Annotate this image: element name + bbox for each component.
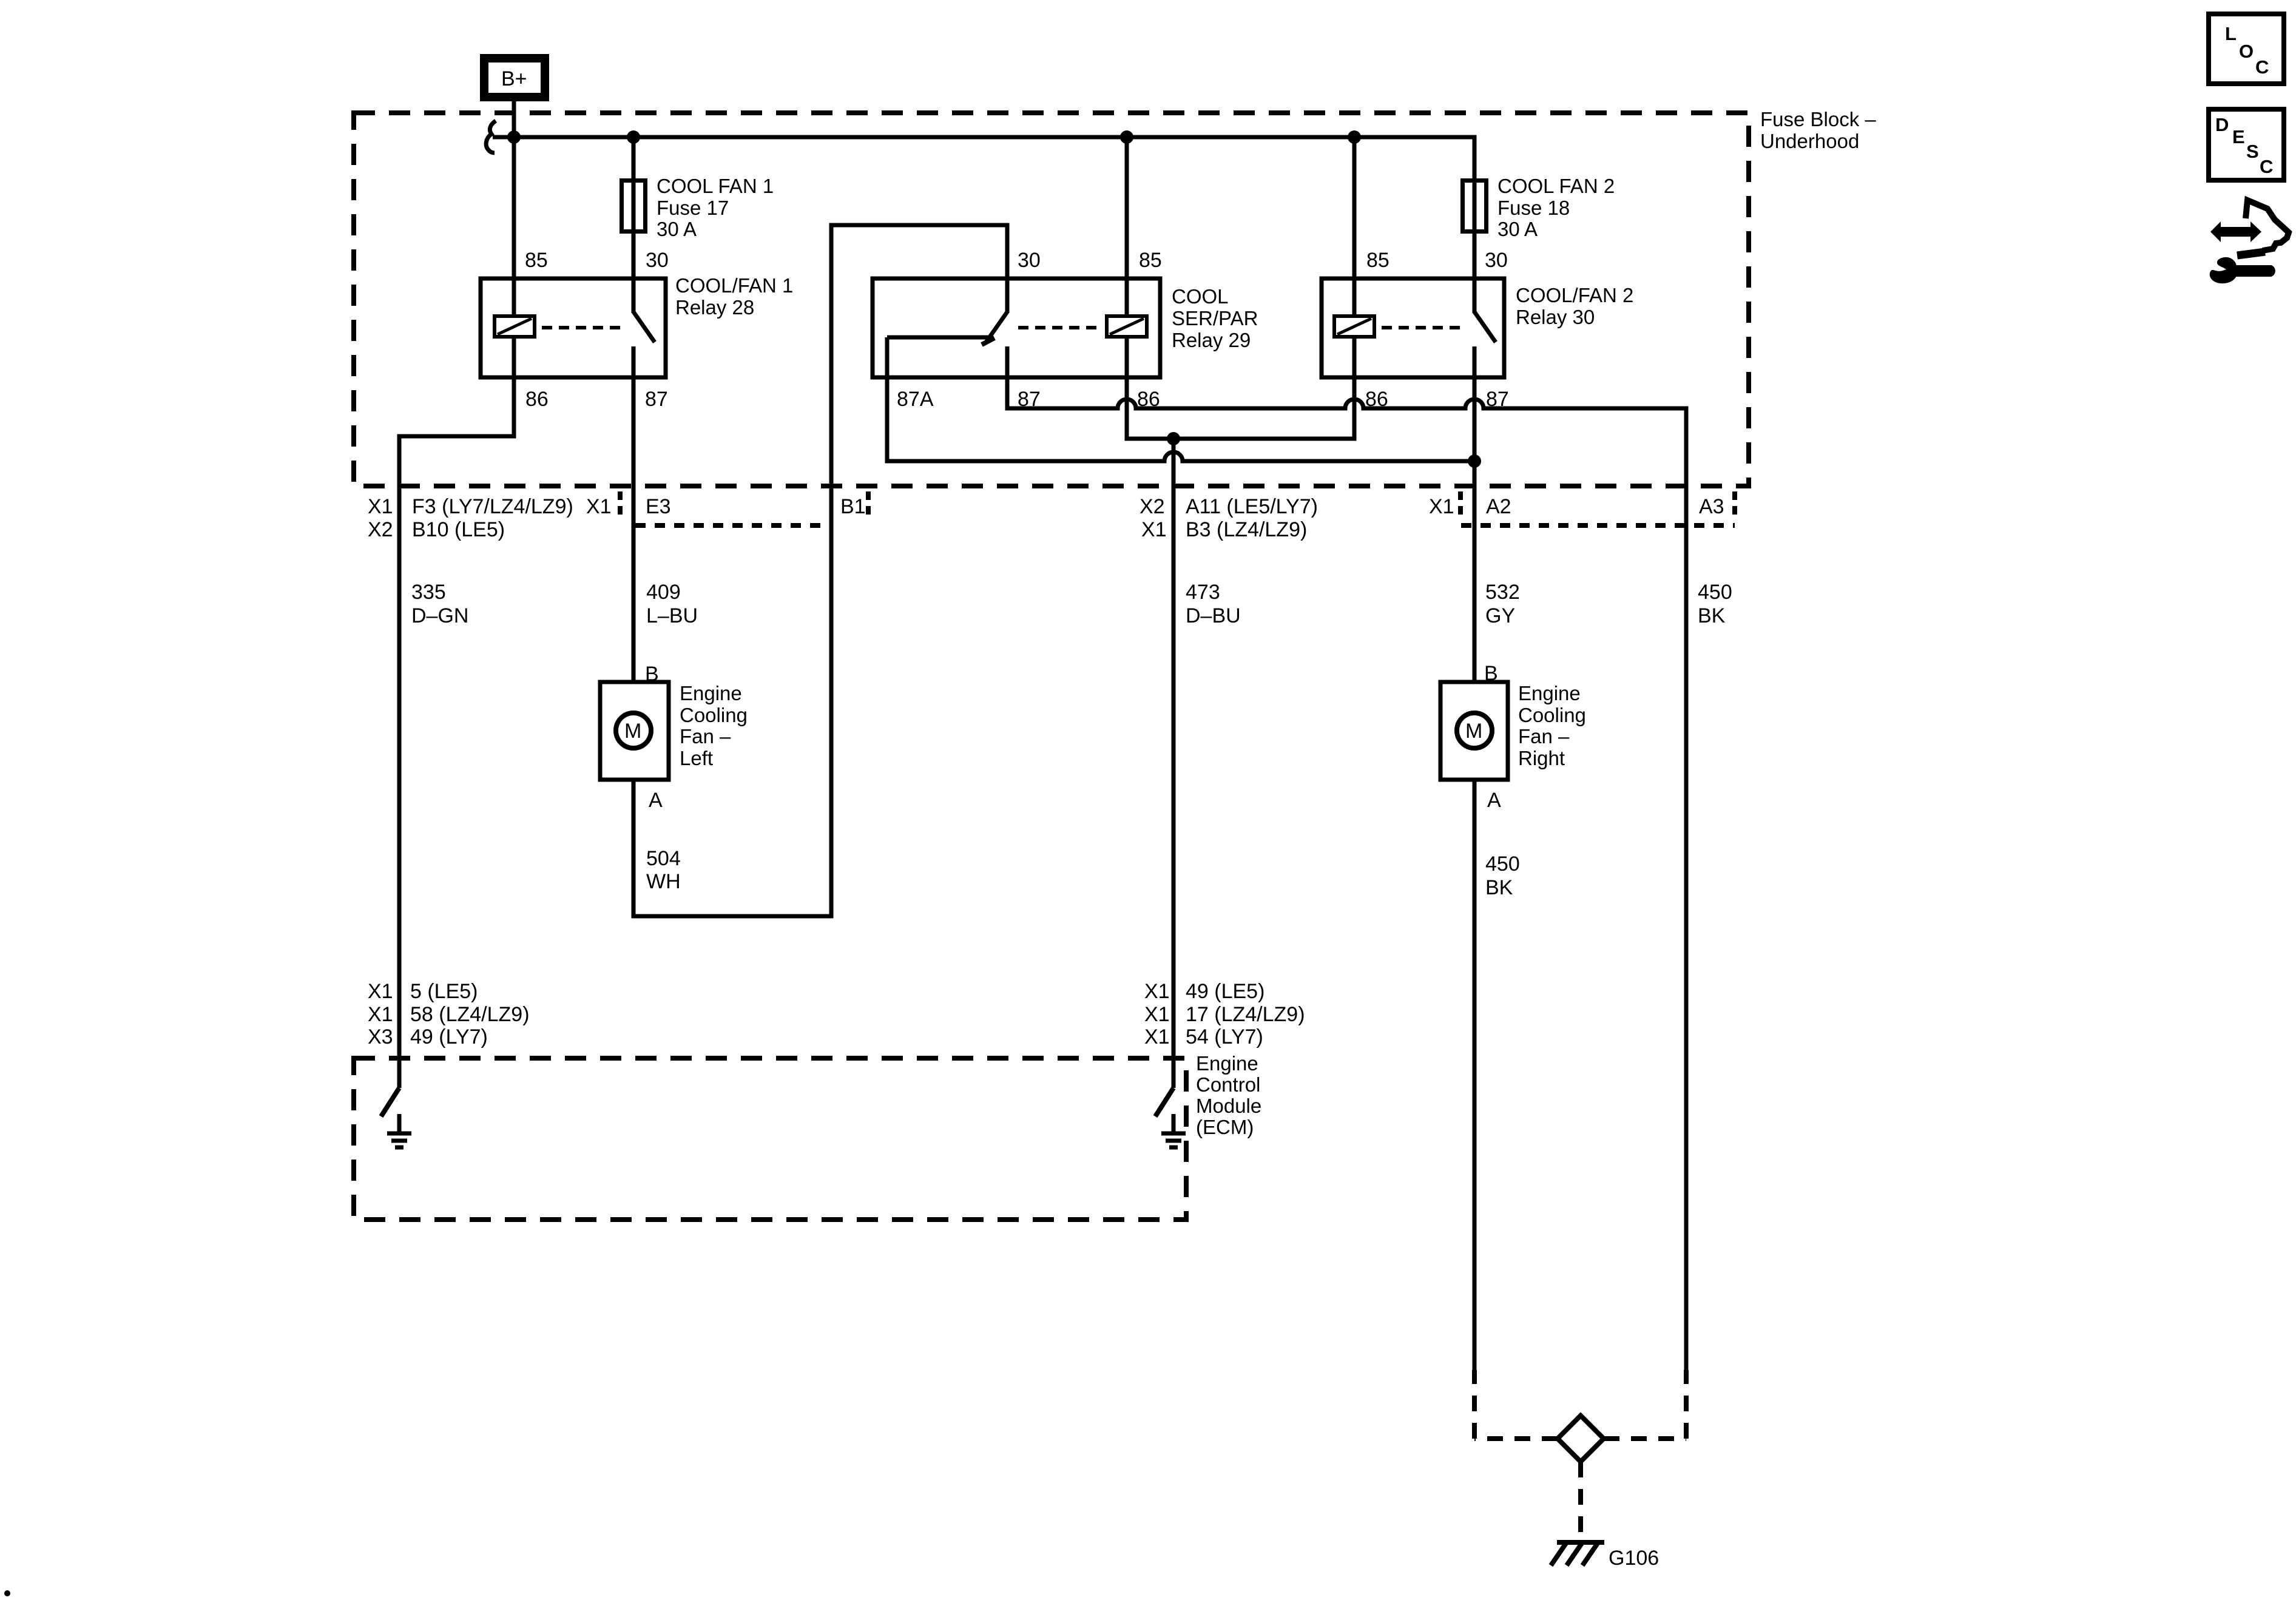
svg-text:Underhood: Underhood bbox=[1760, 130, 1859, 152]
wire label 473 D-BU bbox=[1186, 581, 1241, 627]
svg-text:X1: X1 bbox=[1144, 1025, 1170, 1048]
wire relay 29 pin 86 to relay 30 pin 86 bbox=[1127, 337, 1354, 439]
svg-text:M: M bbox=[1465, 720, 1482, 743]
dashed wire 450 BK to splice diamond right bbox=[1684, 1370, 1689, 1439]
ground symbol ECM right bbox=[1161, 1114, 1186, 1147]
dashed wire 532/450 to splice diamond left bbox=[1472, 1370, 1477, 1439]
svg-text:Fuse Block –: Fuse Block – bbox=[1760, 108, 1876, 130]
svg-text:B1: B1 bbox=[840, 495, 866, 518]
fuse 18 value label bbox=[1497, 175, 1615, 240]
svg-text:Fuse 18: Fuse 18 bbox=[1497, 197, 1570, 219]
svg-text:Engine: Engine bbox=[1518, 682, 1581, 704]
svg-text:X2: X2 bbox=[1140, 495, 1165, 518]
svg-text:X1: X1 bbox=[368, 980, 393, 1003]
relay 29 switch contact tick bbox=[982, 338, 994, 345]
relay 30 coil bbox=[1334, 316, 1374, 337]
wire 473 D-BU to ECM A11 bbox=[1172, 439, 1176, 1088]
svg-text:450: 450 bbox=[1698, 581, 1732, 604]
svg-text:WH: WH bbox=[646, 870, 681, 893]
relay 28 label bbox=[675, 274, 793, 319]
svg-text:X1: X1 bbox=[1144, 1003, 1170, 1026]
svg-text:B: B bbox=[645, 663, 659, 686]
ECM pin labels right bbox=[1144, 980, 1305, 1048]
wire bus to fuse 18 and relay 30 pin 30 bbox=[1473, 137, 1477, 313]
svg-text:450: 450 bbox=[1485, 852, 1520, 876]
svg-text:86: 86 bbox=[525, 388, 549, 411]
svg-text:D: D bbox=[2215, 114, 2229, 135]
svg-text:409: 409 bbox=[646, 581, 681, 604]
relay 29 pin 87 stub bbox=[1005, 346, 1010, 377]
svg-text:X1: X1 bbox=[586, 495, 612, 518]
svg-text:X1: X1 bbox=[1141, 518, 1167, 541]
svg-text:Relay 28: Relay 28 bbox=[675, 296, 754, 319]
svg-text:X1: X1 bbox=[368, 495, 393, 518]
svg-text:85: 85 bbox=[1139, 249, 1162, 272]
node junction relay 30 pin 85 tap bbox=[1348, 130, 1361, 144]
wire bus to fuse 17 and relay 28 pin 30 bbox=[632, 137, 636, 313]
svg-text:504: 504 bbox=[646, 847, 681, 870]
relay 30 label bbox=[1516, 284, 1633, 328]
wire label 409 L-BU bbox=[646, 581, 698, 627]
svg-text:30: 30 bbox=[1018, 249, 1041, 272]
fuse F18 COOL FAN 2 bbox=[1463, 178, 1487, 234]
svg-text:COOL FAN 1: COOL FAN 1 bbox=[657, 175, 774, 197]
svg-text:85: 85 bbox=[525, 249, 548, 272]
svg-text:Relay 29: Relay 29 bbox=[1172, 329, 1251, 351]
right fan label bbox=[1518, 682, 1586, 769]
relay K30 COOL/FAN 2 Relay 30 bbox=[1322, 279, 1504, 377]
left fan label bbox=[680, 682, 748, 769]
connector X1 pin F3 / X2 pin B10 labels bbox=[368, 495, 573, 541]
fuse F17 COOL FAN 1 bbox=[622, 178, 646, 234]
relay 28 switch blade bbox=[633, 312, 655, 342]
svg-text:O: O bbox=[2239, 41, 2254, 62]
svg-text:5 (LE5): 5 (LE5) bbox=[410, 980, 478, 1003]
wire relay 29 pin 85 from bus bbox=[1125, 137, 1129, 316]
svg-text:Relay 30: Relay 30 bbox=[1516, 306, 1595, 328]
wire left fan pin A 504 WH riser through B1 to relay 29 pin 30 bbox=[633, 225, 1007, 916]
wire label 450 BK lower bbox=[1485, 852, 1520, 899]
svg-text:GY: GY bbox=[1485, 604, 1515, 627]
relay 29 coil-switch dashed link bbox=[1018, 326, 1099, 329]
relay 29 switch blade bbox=[986, 312, 1007, 342]
svg-text:L–BU: L–BU bbox=[646, 604, 698, 627]
svg-text:Engine: Engine bbox=[1196, 1052, 1258, 1075]
relay K28 COOL/FAN 1 Relay 28 bbox=[481, 279, 666, 377]
svg-text:X1: X1 bbox=[1429, 495, 1454, 518]
node junction 86 bus to ECM bbox=[1167, 432, 1180, 445]
node junction B+ bus bbox=[507, 130, 521, 144]
wire battery bus bbox=[493, 137, 1474, 178]
svg-text:49 (LE5): 49 (LE5) bbox=[1186, 980, 1264, 1003]
relay 29 pin 87A inner wire bbox=[887, 336, 990, 340]
splice diamond bbox=[1558, 1416, 1604, 1462]
svg-text:87: 87 bbox=[645, 388, 668, 411]
fuse block label bbox=[1760, 108, 1876, 152]
svg-text:C: C bbox=[2260, 156, 2273, 177]
fuse block - underhood boundary bbox=[354, 113, 1749, 486]
svg-text:C: C bbox=[2255, 56, 2269, 78]
svg-text:30 A: 30 A bbox=[1497, 218, 1538, 240]
svg-text:A11 (LE5/LY7): A11 (LE5/LY7) bbox=[1186, 495, 1318, 518]
svg-text:B3 (LZ4/LZ9): B3 (LZ4/LZ9) bbox=[1186, 518, 1307, 541]
ECM label bbox=[1196, 1052, 1261, 1138]
svg-text:30: 30 bbox=[1485, 249, 1508, 272]
svg-text:473: 473 bbox=[1186, 581, 1220, 604]
svg-text:S: S bbox=[2246, 141, 2259, 162]
svg-text:X1: X1 bbox=[368, 1003, 393, 1026]
svg-text:Fan –: Fan – bbox=[1518, 725, 1570, 748]
svg-text:COOL/FAN 1: COOL/FAN 1 bbox=[675, 274, 793, 297]
connector X2 pin A11 / X1 pin B3 labels bbox=[1140, 495, 1318, 541]
motor M1 Engine Cooling Fan Left bbox=[600, 682, 669, 780]
relay 30 coil-switch dashed link bbox=[1382, 326, 1466, 329]
svg-text:Cooling: Cooling bbox=[1518, 704, 1586, 726]
relay 28 coil-switch dashed link bbox=[542, 326, 626, 329]
power symbol B+ bbox=[484, 58, 545, 97]
connector X1 pins A2 A3 labels and notch bbox=[1429, 491, 1735, 525]
svg-text:A3: A3 bbox=[1699, 495, 1724, 518]
icon adjust hand outline bbox=[2237, 200, 2289, 255]
relay 29 coil bbox=[1107, 316, 1147, 337]
icon DESC box bbox=[2209, 109, 2284, 180]
wire relay 28 pin 87 to connector E3 and fan B bbox=[632, 377, 636, 682]
svg-text:A: A bbox=[1487, 789, 1501, 812]
wire relay 30 pin 85 from bus bbox=[1352, 137, 1357, 316]
svg-text:E: E bbox=[2232, 126, 2245, 147]
icon wrench bbox=[2210, 257, 2275, 283]
svg-text:A: A bbox=[649, 789, 663, 812]
svg-text:(ECM): (ECM) bbox=[1196, 1116, 1254, 1138]
svg-text:85: 85 bbox=[1366, 249, 1389, 272]
node junction relay 29 pin 85 tap bbox=[1120, 130, 1133, 144]
svg-text:17 (LZ4/LZ9): 17 (LZ4/LZ9) bbox=[1186, 1003, 1305, 1026]
svg-text:X1: X1 bbox=[1144, 980, 1170, 1003]
relay 29 label bbox=[1172, 285, 1258, 351]
svg-text:Control: Control bbox=[1196, 1073, 1260, 1096]
svg-text:Right: Right bbox=[1518, 747, 1565, 769]
wire label 532 GY bbox=[1485, 581, 1520, 627]
wire B+ feed hook bbox=[486, 121, 496, 153]
ground G106 bbox=[1551, 1542, 1604, 1565]
svg-text:X2: X2 bbox=[368, 518, 393, 541]
relay 28 pin 87 stub bbox=[632, 346, 636, 377]
svg-text:BK: BK bbox=[1485, 876, 1513, 899]
relay 30 switch blade bbox=[1474, 312, 1496, 342]
svg-text:Left: Left bbox=[680, 747, 713, 769]
relay 30 pin 87 stub bbox=[1473, 346, 1477, 377]
svg-text:30 A: 30 A bbox=[657, 218, 697, 240]
svg-text:30: 30 bbox=[646, 249, 669, 272]
svg-text:M: M bbox=[624, 720, 641, 743]
wire label 335 D-GN bbox=[411, 581, 468, 627]
page dot bottom left bbox=[4, 1590, 10, 1596]
svg-text:B: B bbox=[1484, 662, 1498, 685]
relay 28 coil bbox=[495, 316, 535, 337]
wire relay 29 pin 87 to connector A3 (450 BK) with hops bbox=[1007, 377, 1686, 1370]
svg-text:L: L bbox=[2225, 23, 2237, 44]
wire right fan pin A 450 BK down bbox=[1473, 780, 1477, 1370]
svg-text:D–BU: D–BU bbox=[1186, 604, 1241, 627]
wire label 450 BK right bbox=[1698, 581, 1732, 627]
ECM pin labels left bbox=[368, 980, 530, 1048]
svg-text:G106: G106 bbox=[1609, 1547, 1659, 1570]
svg-text:A2: A2 bbox=[1486, 495, 1511, 518]
svg-text:COOL: COOL bbox=[1172, 285, 1229, 308]
relay K29 COOL SER/PAR Relay 29 bbox=[873, 279, 1160, 377]
svg-text:58 (LZ4/LZ9): 58 (LZ4/LZ9) bbox=[410, 1003, 530, 1026]
svg-text:E3: E3 bbox=[646, 495, 671, 518]
svg-text:X3: X3 bbox=[368, 1025, 393, 1048]
svg-text:Fan –: Fan – bbox=[680, 725, 731, 748]
svg-text:COOL FAN 2: COOL FAN 2 bbox=[1497, 175, 1615, 197]
svg-text:F3 (LY7/LZ4/LZ9): F3 (LY7/LZ4/LZ9) bbox=[412, 495, 573, 518]
node junction 87A to A2 wire bbox=[1468, 454, 1481, 468]
wire 335 D-GN to ECM bbox=[397, 486, 402, 1088]
svg-text:B+: B+ bbox=[501, 67, 527, 90]
svg-text:532: 532 bbox=[1485, 581, 1520, 604]
svg-text:Fuse 17: Fuse 17 bbox=[657, 197, 729, 219]
svg-text:Engine: Engine bbox=[680, 682, 742, 704]
svg-text:BK: BK bbox=[1698, 604, 1726, 627]
svg-text:Module: Module bbox=[1196, 1095, 1261, 1117]
wire relay 29 pin 87A to relay 30 pin 87 with hop bbox=[887, 337, 1474, 461]
ECM Engine Control Module boundary bbox=[354, 1058, 1186, 1220]
wire label 504 WH bbox=[646, 847, 681, 893]
svg-text:B10 (LE5): B10 (LE5) bbox=[412, 518, 505, 541]
wire relay 28 pin 86 to connector F3 bbox=[399, 377, 514, 486]
svg-text:COOL/FAN 2: COOL/FAN 2 bbox=[1516, 284, 1633, 306]
ECM right driver switch bbox=[1155, 1088, 1173, 1116]
wire B+ down through relay 28 coil bbox=[512, 101, 516, 377]
connector X1 pins E3 B1 labels and notch bbox=[586, 491, 868, 525]
icon LOC box bbox=[2209, 14, 2284, 84]
svg-text:87A: 87A bbox=[897, 388, 934, 411]
svg-text:D–GN: D–GN bbox=[411, 604, 468, 627]
wire relay 30 pin 87 to connector A2 and right fan B (532 GY) bbox=[1473, 377, 1477, 682]
svg-text:335: 335 bbox=[411, 581, 446, 604]
svg-text:49 (LY7): 49 (LY7) bbox=[410, 1025, 488, 1048]
svg-text:54 (LY7): 54 (LY7) bbox=[1186, 1025, 1263, 1048]
node junction fuse 17 tap bbox=[627, 130, 640, 144]
motor M2 Engine Cooling Fan Right bbox=[1440, 682, 1508, 780]
icon adjust double arrow bbox=[2210, 221, 2261, 242]
ground symbol ECM left bbox=[387, 1114, 411, 1147]
svg-text:Cooling: Cooling bbox=[680, 704, 748, 726]
ECM left driver switch bbox=[381, 1088, 399, 1116]
svg-text:SER/PAR: SER/PAR bbox=[1172, 307, 1258, 329]
dashed wire diamond to G106 bbox=[1578, 1462, 1583, 1536]
fuse 17 value label bbox=[657, 175, 774, 240]
